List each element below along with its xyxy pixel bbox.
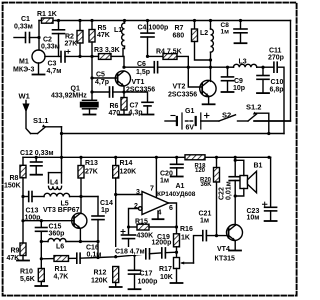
svg-text:120K: 120K <box>120 169 137 176</box>
node junction (269,157.3) <box>267 156 270 159</box>
ground C12 <box>31 174 43 176</box>
svg-text:47K: 47K <box>7 255 20 262</box>
wire right bus drop to battery row <box>254 21 291 122</box>
svg-text:4: 4 <box>158 210 162 217</box>
svg-text:10м: 10м <box>247 215 260 222</box>
svg-text:C1: C1 <box>21 16 30 23</box>
node junction (124,92) <box>122 90 125 93</box>
node junction (235.2,160.3) <box>234 159 237 162</box>
svg-text:R5: R5 <box>98 25 107 32</box>
resistor R5 <box>89 21 95 57</box>
svg-text:4,7м: 4,7м <box>47 68 62 75</box>
capacitor C23 <box>263 157 277 220</box>
capacitor electrolytic pin2 <box>121 227 136 247</box>
wire pin6 <box>169 203 177 234</box>
svg-text:C15: C15 <box>49 224 62 231</box>
capacitor C6 <box>154 62 227 73</box>
svg-text:0,1м: 0,1м <box>87 252 102 259</box>
node junction (216.5,157.3) <box>215 156 218 159</box>
resistor R15 <box>129 224 177 230</box>
svg-text:27K: 27K <box>65 41 78 48</box>
wire C13 row <box>23 196 29 198</box>
resistor R1 <box>39 18 59 23</box>
svg-text:C18 4,7м: C18 4,7м <box>115 249 145 256</box>
resistor R18 <box>185 155 205 160</box>
node R2 bottom <box>78 55 81 58</box>
svg-text:C13: C13 <box>26 208 39 215</box>
svg-text:1,5p: 1,5p <box>136 69 150 76</box>
ground C17 <box>129 288 141 290</box>
svg-text:6,8p: 6,8p <box>270 87 284 94</box>
capacitor C21 <box>203 231 227 241</box>
ground C20 <box>171 176 183 178</box>
svg-text:2SC3356: 2SC3356 <box>168 92 197 99</box>
svg-text:0,33м: 0,33м <box>14 24 33 31</box>
svg-text:0,33м: 0,33м <box>41 44 60 51</box>
resistor R12 <box>113 267 119 287</box>
svg-text:1200p: 1200p <box>152 240 172 247</box>
ground VT2 <box>203 103 215 105</box>
node bus R1/C2 <box>57 19 60 22</box>
svg-text:C5: C5 <box>96 72 105 79</box>
resistor R2 <box>77 21 83 57</box>
node junction (210.5,20.5) <box>209 19 212 22</box>
svg-text:C7: C7 <box>130 103 139 110</box>
wire VT1 base <box>92 77 118 79</box>
ground R12 <box>110 286 122 288</box>
svg-text:C4 1000p: C4 1000p <box>138 25 169 32</box>
wire pin7 <box>155 157 157 197</box>
transistor VT4 <box>227 196 243 250</box>
svg-text:L6: L6 <box>56 244 64 251</box>
node junction (41.3,220.7) <box>40 219 43 222</box>
svg-text:Q1: Q1 <box>71 86 80 93</box>
svg-text:R3 3,3K: R3 3,3K <box>94 47 120 54</box>
node junction (194.5,20.5) <box>193 19 196 22</box>
svg-text:1м: 1м <box>160 178 169 185</box>
node junction (210.5,67.2) <box>209 66 212 69</box>
svg-text:М1: М1 <box>19 59 29 66</box>
capacitor C4 <box>141 21 154 57</box>
svg-text:C2: C2 <box>43 37 52 44</box>
svg-text:7: 7 <box>150 186 154 193</box>
svg-text:R7: R7 <box>175 25 184 32</box>
node junction (176.7,157.3) <box>175 156 178 159</box>
capacitor C20 <box>171 157 184 176</box>
op-amp A1 <box>138 192 168 215</box>
resistor R7 <box>192 21 211 61</box>
node junction (147.5,20.5) <box>146 19 149 22</box>
ground VT4 <box>229 250 241 252</box>
ground R17 <box>171 282 183 284</box>
svg-text:430K: 430K <box>137 233 154 240</box>
svg-text:C6: C6 <box>137 61 146 68</box>
node junction (176.5,227) <box>175 225 178 228</box>
ground C23 <box>265 220 277 222</box>
capacitor C2 <box>53 21 65 57</box>
capacitor C12 <box>31 157 43 174</box>
svg-text:3: 3 <box>136 189 140 196</box>
inductor L5 <box>44 193 81 196</box>
svg-text:R6: R6 <box>110 103 119 110</box>
ground R6 <box>118 114 130 116</box>
svg-text:R10: R10 <box>20 269 33 276</box>
antenna W1 <box>22 101 30 134</box>
svg-text:10K: 10K <box>160 274 173 281</box>
wire crystal column <box>91 56 93 99</box>
svg-text:6: 6 <box>169 205 173 212</box>
node junction (156.4,157.3) <box>155 156 158 159</box>
wire main mid row <box>23 156 185 158</box>
node junction (216.5,235.6) <box>215 234 218 237</box>
svg-text:1000p: 1000p <box>138 279 158 286</box>
svg-text:R8: R8 <box>10 175 19 182</box>
switch S1.2 <box>248 112 291 134</box>
wire pin3 <box>116 194 142 196</box>
svg-text:R4 7,5K: R4 7,5K <box>156 49 182 56</box>
resistor R9 <box>20 243 26 260</box>
svg-text:C9: C9 <box>234 78 243 85</box>
svg-text:L3: L3 <box>239 59 247 66</box>
svg-text:R17: R17 <box>159 266 172 273</box>
svg-text:C14: C14 <box>100 200 113 207</box>
svg-text:6V: 6V <box>186 125 195 132</box>
resistor R11 <box>41 256 77 262</box>
wire VT1 collector drop <box>123 56 125 67</box>
node junction (80,20.5) <box>78 19 81 22</box>
wire emitter to C14 <box>80 241 98 243</box>
svg-text:R11: R11 <box>55 266 68 273</box>
inductor L6 <box>41 239 80 242</box>
svg-text:100p: 100p <box>25 215 41 222</box>
node junction (115.7,194.5) <box>114 193 117 196</box>
node junction (98,257.5) <box>96 256 99 259</box>
svg-text:S1.1: S1.1 <box>33 116 48 125</box>
svg-text:C21: C21 <box>199 211 212 218</box>
node junction (188.3,67.2) <box>187 66 190 69</box>
wire to C14 <box>81 196 98 198</box>
node junction (124,67.2) <box>122 66 125 69</box>
ground C7 <box>142 114 154 116</box>
resistor R8 <box>20 157 26 243</box>
battery G1 <box>165 113 219 129</box>
svg-text:L4: L4 <box>50 180 58 187</box>
svg-text:C22: C22 <box>219 187 226 200</box>
node junction (92,20.5) <box>90 19 93 22</box>
transistor VT3 <box>72 197 87 242</box>
svg-text:R2: R2 <box>65 34 74 41</box>
svg-text:1p: 1p <box>101 207 109 214</box>
node junction (263,67.2) <box>261 66 264 69</box>
svg-text:2: 2 <box>134 203 138 210</box>
node junction (235.2,196) <box>234 194 237 197</box>
resistor R3 <box>92 54 123 60</box>
capacitor C5 <box>92 87 124 97</box>
svg-text:C17: C17 <box>140 271 153 278</box>
svg-text:4,7p: 4,7p <box>95 79 109 86</box>
svg-text:A1: A1 <box>176 183 185 190</box>
wire mic row <box>45 55 61 57</box>
svg-text:L2: L2 <box>200 30 208 37</box>
switch S1.1 <box>31 124 62 133</box>
svg-text:S1.2: S1.2 <box>246 103 261 112</box>
capacitor C17 <box>129 255 141 289</box>
svg-text:КТ315: КТ315 <box>215 256 236 263</box>
svg-text:27K: 27K <box>85 169 98 176</box>
node junction (81,196.5) <box>79 195 82 198</box>
resistor R14 <box>113 157 119 256</box>
capacitor C10 <box>257 67 269 92</box>
svg-text:47K: 47K <box>97 32 110 39</box>
svg-text:270p: 270p <box>268 55 284 62</box>
svg-text:VT2: VT2 <box>173 84 186 91</box>
node junction (80.4,241.5) <box>79 240 82 243</box>
capacitor C13 <box>29 192 44 202</box>
resistor R16 <box>174 234 180 258</box>
inductor L3 <box>228 64 264 67</box>
speaker B1 <box>235 160 256 196</box>
node junction (268.8,133.5) <box>267 132 270 135</box>
svg-text:VT4: VT4 <box>217 246 230 253</box>
node junction (36.2,157.3) <box>35 156 38 159</box>
node junction (23,196.5) <box>21 195 24 198</box>
ground C10 <box>257 92 269 94</box>
node junction (41.3,241.5) <box>40 240 43 243</box>
node junction (23,220.7) <box>21 219 24 222</box>
ground R10 <box>35 285 47 287</box>
wire antenna T/R line <box>62 133 285 135</box>
svg-text:B1: B1 <box>254 163 263 170</box>
node junction (124.5,20.5) <box>123 19 126 22</box>
svg-text:360p: 360p <box>49 231 65 238</box>
node junction (147.5,56.4) <box>146 55 149 58</box>
wire R1 left drop <box>38 21 40 51</box>
node junction (92,78) <box>90 76 93 79</box>
transistor VT1 <box>115 71 130 86</box>
crystal Q1 <box>81 100 99 114</box>
resistor R20 <box>214 157 220 235</box>
capacitor C14 <box>92 197 104 258</box>
wire pin2 <box>129 209 139 228</box>
svg-text:G1: G1 <box>185 108 194 115</box>
node R5/R3 <box>90 55 93 58</box>
node junction (134.5,255.1) <box>133 254 136 257</box>
svg-text:4,7K: 4,7K <box>54 274 69 281</box>
ground C8 <box>235 42 247 44</box>
svg-text:МКЭ-3: МКЭ-3 <box>13 67 35 74</box>
inductor L4 <box>49 157 62 189</box>
svg-text:R16: R16 <box>180 226 193 233</box>
node C1-M1 <box>37 36 40 39</box>
capacitor C9 <box>222 67 234 91</box>
svg-text:S2: S2 <box>222 111 231 120</box>
transistor VT2 <box>200 67 216 103</box>
svg-text:C11: C11 <box>269 48 282 55</box>
svg-text:C10: C10 <box>271 79 284 86</box>
svg-text:2SC3356: 2SC3356 <box>126 87 155 94</box>
node junction (128.5,227) <box>127 225 130 228</box>
svg-text:1м: 1м <box>200 218 209 225</box>
node junction (61.5,157.3) <box>60 156 63 159</box>
svg-text:VT3 BFP67: VT3 BFP67 <box>43 207 80 214</box>
node junction (81,157.3) <box>79 156 82 159</box>
svg-text:VT1: VT1 <box>132 79 145 86</box>
wire pin4 + ground <box>157 211 159 219</box>
ground C9 <box>222 91 234 93</box>
svg-text:C20: C20 <box>160 171 173 178</box>
capacitor C16 <box>77 253 146 263</box>
wire top bus <box>56 20 291 22</box>
svg-text:4,3p: 4,3p <box>129 110 143 117</box>
capacitor C15 <box>36 221 48 242</box>
svg-text:W1: W1 <box>19 92 30 101</box>
svg-text:433,92MHz: 433,92MHz <box>51 93 87 100</box>
node junction (92,92) <box>90 90 93 93</box>
node junction (115.7,256.8) <box>114 255 117 258</box>
ground M1 <box>33 74 45 76</box>
label C18 <box>114 247 145 255</box>
svg-text:36K: 36K <box>201 182 213 188</box>
svg-text:1м: 1м <box>221 29 230 36</box>
capacitor C1 <box>14 33 39 43</box>
svg-text:5,6K: 5,6K <box>20 276 35 283</box>
ground Q1 <box>84 114 96 116</box>
svg-text:R14: R14 <box>120 160 133 167</box>
potentiometer R17 <box>174 236 202 283</box>
svg-text:R1 1K: R1 1K <box>37 11 57 18</box>
node junction (240.5,20.5) <box>239 19 242 22</box>
capacitor C3 <box>61 50 92 62</box>
wire VT3 base row <box>23 220 74 222</box>
svg-text:150K: 150K <box>4 183 21 190</box>
node junction (98,241.5) <box>96 240 99 243</box>
wire audio row <box>40 242 42 269</box>
svg-text:C16: C16 <box>86 245 99 252</box>
inductor L2 <box>211 21 214 68</box>
svg-text:1K: 1K <box>181 235 190 242</box>
svg-text:КР140УД608: КР140УД608 <box>157 191 196 198</box>
microphone M1 <box>32 50 45 74</box>
resistor R13 <box>78 157 84 196</box>
switch S2 <box>219 115 248 121</box>
svg-text:120: 120 <box>195 168 206 174</box>
resistor R6 <box>121 92 127 114</box>
svg-text:L1: L1 <box>114 27 122 34</box>
node junction (235.2,157.3) <box>234 156 237 159</box>
ground electrolytic <box>123 247 135 249</box>
svg-text:C12 0,33м: C12 0,33м <box>20 150 54 157</box>
svg-text:0,01м: 0,01м <box>226 181 233 200</box>
node junction (227.5,67.2) <box>226 66 229 69</box>
svg-text:R9: R9 <box>11 248 20 255</box>
node junction (210.5,60) <box>209 58 212 61</box>
svg-text:R12: R12 <box>94 270 107 277</box>
capacitor C19 <box>162 248 177 258</box>
wire VT2 base <box>188 67 202 87</box>
node junction (61.5,133.5) <box>60 132 63 135</box>
capacitor C22 <box>229 157 241 196</box>
svg-text:680: 680 <box>173 33 185 40</box>
capacitor C18 <box>146 249 162 259</box>
svg-text:C3: C3 <box>48 61 57 68</box>
capacitor C11 <box>263 62 284 133</box>
svg-text:R13: R13 <box>85 160 98 167</box>
svg-text:R15: R15 <box>135 219 148 226</box>
capacitor C7 <box>124 92 153 114</box>
svg-text:470: 470 <box>109 110 121 117</box>
resistor R4 <box>148 54 189 68</box>
inductor L1 <box>122 21 125 57</box>
node junction (176.5,252.2) <box>175 251 178 254</box>
wire VT1 emitter <box>123 86 125 92</box>
svg-text:10p: 10p <box>233 85 245 92</box>
node junction (41.3,258.8) <box>40 257 43 260</box>
capacitor C8 <box>234 21 247 43</box>
svg-text:120K: 120K <box>91 278 108 285</box>
node junction (115.7,157.3) <box>114 156 117 159</box>
wire collector row <box>124 66 154 68</box>
wire S1.1 drop <box>61 127 63 158</box>
ground R9 <box>17 260 29 262</box>
resistor R10 <box>38 269 44 286</box>
